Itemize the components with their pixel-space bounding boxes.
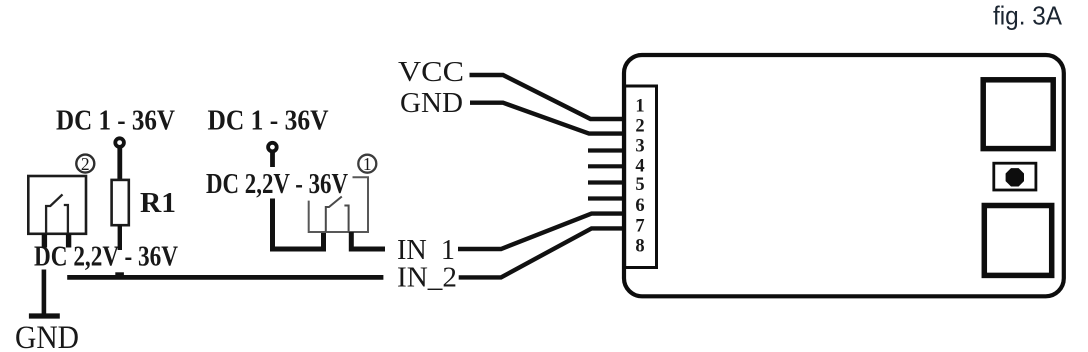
wire R1 lower lead <box>118 225 122 250</box>
pin 3 stub <box>588 148 625 152</box>
svg-text:6: 6 <box>635 196 644 216</box>
switch S1 contact left <box>326 197 342 233</box>
switch S2 contact left <box>46 194 62 233</box>
wire GND to pin 2 <box>470 103 625 134</box>
svg-text:3: 3 <box>635 137 644 157</box>
svg-text:1: 1 <box>363 154 372 174</box>
svg-text:DC 2,2V - 36V: DC 2,2V - 36V <box>34 242 178 273</box>
svg-text:2: 2 <box>81 154 90 174</box>
switch S1 contact right <box>344 206 348 233</box>
pin 6 stub <box>588 196 625 200</box>
svg-text:fig. 3A: fig. 3A <box>993 1 1063 31</box>
svg-text:4: 4 <box>635 157 644 177</box>
svg-text:2: 2 <box>635 117 644 137</box>
wire S2 to ground <box>42 270 47 315</box>
wire S2 leg 2 stub <box>66 234 71 248</box>
svg-text:GND: GND <box>15 320 79 352</box>
wire T1 to R1 <box>117 147 122 180</box>
switch S1 outline <box>309 177 368 232</box>
wire IN_2 to pin 8 <box>459 228 625 277</box>
svg-text:1: 1 <box>635 97 644 117</box>
LED box <box>994 163 1036 190</box>
circled 1 designator <box>358 155 376 173</box>
relay K1 (top square) <box>983 80 1053 149</box>
wire S1 to IN 1 <box>351 232 385 249</box>
module U1 body <box>624 55 1064 296</box>
svg-text:DC 1 - 36V: DC 1 - 36V <box>56 106 175 137</box>
pin 5 stub <box>588 180 625 184</box>
wire VCC to pin 1 <box>470 75 625 119</box>
svg-text:5: 5 <box>635 175 644 195</box>
ground symbol <box>29 313 60 318</box>
junction R1 to IN_2 net <box>115 272 124 277</box>
switch S2 box <box>28 176 86 234</box>
wire T2 to switch S1 <box>270 151 275 167</box>
wire IN 1 to pin 7 <box>458 214 625 249</box>
LED dot <box>1006 168 1024 186</box>
svg-text:VCC: VCC <box>398 56 464 88</box>
wire IN_2 net (long) <box>67 275 383 280</box>
wire S2 leg 1 stub <box>42 234 47 248</box>
svg-text:7: 7 <box>635 217 644 237</box>
terminal T1 (left supply) <box>115 138 124 147</box>
svg-text:IN_2: IN_2 <box>397 262 457 294</box>
switch S2 contact right <box>64 205 68 234</box>
wire T2 to switch S1 (below label) <box>273 199 324 250</box>
circled 2 designator <box>76 155 94 173</box>
pin 4 stub <box>588 164 625 168</box>
svg-text:DC 1 - 36V: DC 1 - 36V <box>208 106 329 137</box>
svg-text:8: 8 <box>635 237 644 257</box>
resistor R1 <box>112 180 129 225</box>
pin header box <box>625 86 657 268</box>
svg-text:DC 2,2V - 36V: DC 2,2V - 36V <box>206 169 348 200</box>
svg-text:R1: R1 <box>140 188 176 219</box>
terminal T2 (right supply) <box>268 143 277 152</box>
svg-text:GND: GND <box>400 87 463 119</box>
relay K2 (bottom square) <box>984 206 1051 276</box>
